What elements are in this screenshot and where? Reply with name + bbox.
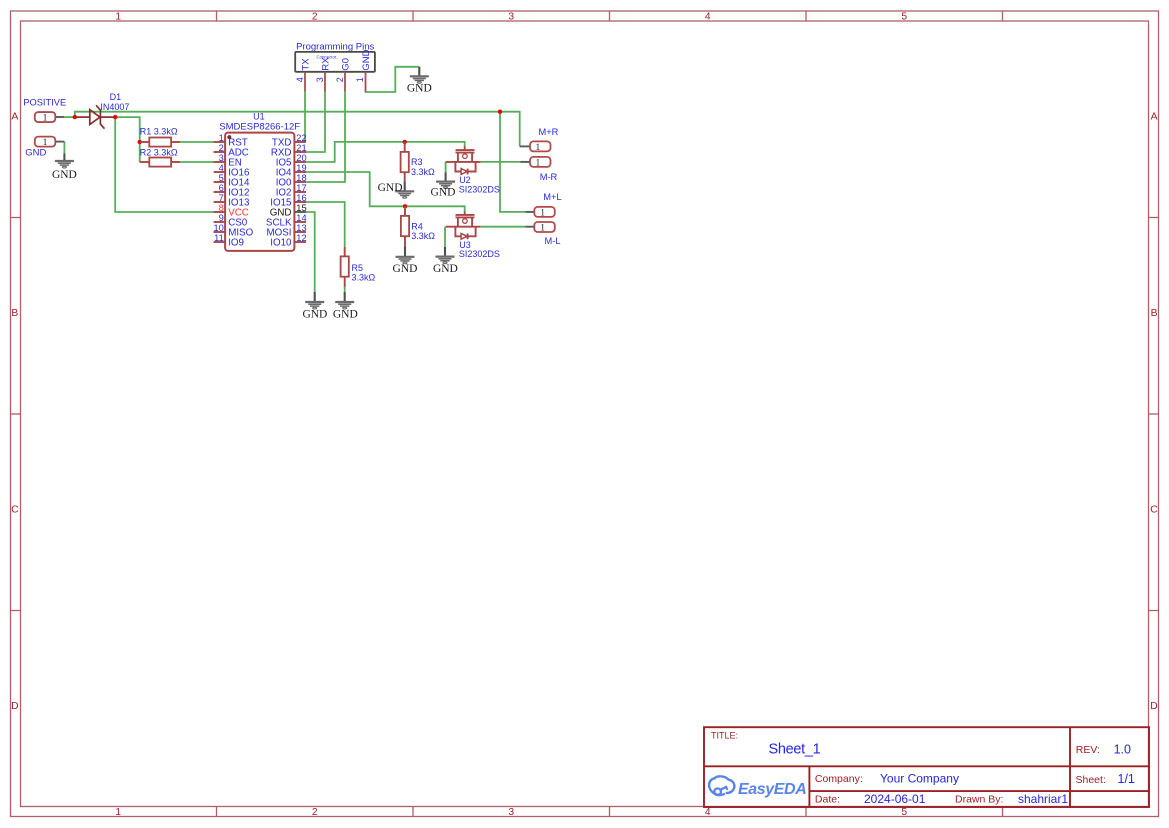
wire GND pin 15 to ground [306, 212, 315, 292]
svg-text:3: 3 [508, 807, 514, 818]
wire node to M+L [500, 112, 525, 212]
svg-text:U1: U1 [253, 112, 265, 122]
wire GND port down [63, 142, 65, 154]
transistor U3 SI2302DS [446, 211, 500, 259]
wire U2 source to ground [445, 162, 447, 173]
svg-text:G0: G0 [340, 58, 351, 71]
wire IO4 to R4 and U3 gate [306, 172, 465, 211]
svg-text:A: A [1151, 112, 1158, 123]
svg-text:Date:: Date: [815, 794, 840, 806]
svg-text:shahriar1: shahriar1 [1018, 792, 1068, 806]
svg-text:SMDESP8266-12F: SMDESP8266-12F [219, 121, 300, 132]
svg-text:Sheet_1: Sheet_1 [769, 742, 821, 758]
svg-text:19: 19 [296, 163, 306, 173]
ground for U2 source [431, 173, 456, 199]
svg-text:GND: GND [302, 308, 327, 320]
wire U2 drain to M-R [481, 161, 521, 163]
connector Programming Pins [295, 41, 375, 91]
svg-text:3: 3 [219, 153, 224, 163]
ground for R3 [378, 181, 415, 198]
svg-text:SI2302DS: SI2302DS [459, 249, 500, 259]
node junction D1 cathode [113, 115, 117, 119]
svg-text:Sheet:: Sheet: [1076, 774, 1106, 786]
svg-text:6: 6 [219, 183, 224, 193]
svg-text:16: 16 [296, 193, 306, 203]
svg-text:2024-06-01: 2024-06-01 [864, 792, 926, 806]
svg-text:5: 5 [901, 807, 907, 818]
port M-L [525, 222, 560, 246]
svg-text:5: 5 [219, 173, 224, 183]
svg-text:GND: GND [393, 263, 418, 275]
svg-text:14: 14 [296, 213, 306, 223]
svg-text:18: 18 [296, 173, 306, 183]
svg-text:3.3kΩ: 3.3kΩ [352, 273, 376, 283]
svg-text:2: 2 [312, 807, 318, 818]
svg-text:D: D [11, 701, 18, 712]
svg-text:R1 3.3kΩ: R1 3.3kΩ [140, 127, 178, 137]
svg-text:1: 1 [536, 158, 541, 168]
svg-text:1: 1 [115, 11, 121, 22]
wire U3 source to ground [444, 227, 446, 247]
port M+L [525, 192, 561, 218]
svg-text:A: A [11, 112, 18, 123]
port M-R [521, 157, 558, 182]
svg-text:4: 4 [295, 77, 305, 82]
svg-text:4: 4 [705, 11, 711, 22]
EasyEDA logo [709, 776, 806, 798]
svg-text:21: 21 [296, 143, 306, 153]
resistor R2 3.3k [140, 147, 180, 166]
wire D1 cathode down to VCC pin 8 [115, 117, 213, 212]
svg-text:C: C [11, 505, 19, 516]
svg-text:2: 2 [335, 77, 345, 82]
svg-text:IO9: IO9 [228, 237, 244, 248]
svg-text:SI2302DS: SI2302DS [459, 185, 500, 195]
wire R2 to EN pin 3 [180, 161, 214, 163]
svg-text:GND: GND [333, 308, 358, 320]
wire D1 cathode to R1/R2 [113, 117, 140, 162]
svg-text:GND: GND [433, 263, 458, 275]
svg-text:2: 2 [219, 143, 224, 153]
svg-text:GND: GND [431, 187, 456, 199]
svg-text:4: 4 [219, 163, 224, 173]
wire top rail POSITIVE bypass to M+R [75, 112, 520, 147]
wire IO5 to R3 and U2 gate [306, 142, 465, 162]
ground for U3 source [433, 247, 458, 275]
svg-text:GND: GND [361, 49, 372, 70]
svg-text:15: 15 [296, 203, 306, 213]
svg-text:U2: U2 [459, 175, 471, 185]
svg-text:12: 12 [296, 233, 306, 243]
svg-text:M-L: M-L [544, 236, 560, 246]
svg-text:3.3kΩ: 3.3kΩ [411, 231, 435, 241]
svg-text:9: 9 [219, 213, 224, 223]
node junction R1 [138, 140, 142, 144]
title block [704, 727, 1149, 807]
svg-text:1: 1 [219, 133, 224, 143]
svg-text:Your Company: Your Company [880, 771, 959, 785]
svg-text:1: 1 [536, 143, 541, 153]
node junction R4 [403, 204, 407, 208]
svg-text:11: 11 [214, 233, 224, 243]
svg-text:B: B [1151, 308, 1158, 319]
wire header pin1 to GND [366, 67, 420, 92]
svg-text:M+L: M+L [543, 192, 561, 202]
port M+R [520, 127, 559, 153]
svg-text:M-R: M-R [540, 172, 558, 182]
ground for header pin1 [407, 67, 432, 95]
svg-text:Drawn By:: Drawn By: [955, 794, 1003, 806]
svg-text:R2 3.3kΩ: R2 3.3kΩ [140, 147, 178, 157]
port GND [25, 137, 64, 159]
svg-text:D: D [1150, 701, 1157, 712]
svg-text:B: B [11, 308, 18, 319]
wire TX to TXD pin 22 [304, 92, 306, 142]
svg-text:D1: D1 [110, 92, 122, 102]
svg-text:GND: GND [378, 182, 403, 194]
wire R5 bottom to ground [344, 287, 346, 292]
port POSITIVE [23, 97, 66, 123]
svg-text:1/1: 1/1 [1118, 772, 1135, 786]
svg-text:1: 1 [115, 807, 121, 818]
svg-text:Company:: Company: [815, 773, 863, 785]
resistor R4 3.3k [401, 206, 435, 246]
node junction R3 [403, 140, 407, 144]
svg-text:20: 20 [296, 153, 306, 163]
svg-text:22: 22 [296, 133, 306, 143]
wire POSITIVE to D1 anode [64, 116, 76, 118]
svg-text:GND: GND [52, 169, 77, 181]
svg-text:2: 2 [312, 11, 318, 22]
svg-text:13: 13 [296, 223, 306, 233]
node junction top rail [498, 110, 502, 114]
svg-text:5: 5 [901, 11, 907, 22]
svg-text:IO10: IO10 [270, 237, 292, 248]
svg-text:1.0: 1.0 [1114, 742, 1131, 756]
svg-text:1: 1 [355, 77, 365, 82]
wire U3 drain to M-L [481, 226, 526, 228]
svg-text:1: 1 [540, 223, 545, 233]
svg-text:4: 4 [705, 807, 711, 818]
svg-text:3: 3 [315, 77, 325, 82]
wire RX to RXD pin 21 [306, 92, 325, 152]
ground for GND pin 15 [302, 292, 327, 320]
svg-text:GND: GND [407, 83, 432, 95]
IC U1 SMDESP8266-12F [213, 112, 306, 251]
ground for R5 [333, 292, 358, 320]
svg-text:REV:: REV: [1076, 744, 1100, 756]
svg-text:POSITIVE: POSITIVE [23, 97, 66, 107]
svg-text:1: 1 [43, 113, 48, 123]
svg-text:M+R: M+R [538, 127, 558, 137]
wire G0 to IO0 pin 18 [306, 92, 345, 182]
svg-text:R4: R4 [411, 222, 423, 232]
svg-text:8: 8 [219, 203, 224, 213]
svg-text:GND: GND [25, 147, 46, 158]
resistor R3 3.3k [401, 142, 435, 181]
svg-text:R5: R5 [352, 263, 364, 273]
svg-text:10: 10 [213, 223, 223, 233]
svg-text:TITLE:: TITLE: [711, 731, 738, 741]
node junction POSITIVE [73, 115, 77, 119]
svg-text:3: 3 [508, 11, 514, 22]
resistor R1 3.3k [140, 127, 180, 147]
svg-text:IN4007: IN4007 [100, 102, 129, 112]
svg-text:R3: R3 [411, 157, 423, 167]
transistor U2 SI2302DS [446, 147, 500, 195]
wire IO15 to R5 [306, 202, 345, 247]
svg-text:EasyEDA: EasyEDA [738, 781, 806, 798]
svg-text:TX: TX [300, 58, 311, 71]
svg-text:7: 7 [219, 193, 224, 203]
svg-text:RX: RX [320, 57, 331, 71]
ground for R4 [393, 247, 418, 275]
svg-text:C: C [1150, 505, 1158, 516]
ground for GND port [52, 154, 77, 182]
diode D1 1N4007 [77, 92, 130, 129]
resistor R5 3.3k [341, 247, 376, 287]
wire R1 to RST pin 1 [180, 141, 214, 143]
svg-text:3.3kΩ: 3.3kΩ [411, 167, 435, 177]
svg-text:17: 17 [296, 183, 306, 193]
svg-text:1: 1 [540, 208, 545, 218]
